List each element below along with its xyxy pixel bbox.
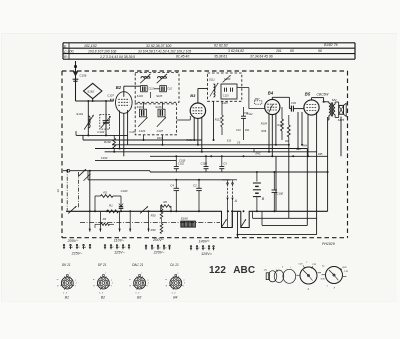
svg-text:35,38 61: 35,38 61 [214,55,227,59]
svg-text:C112: C112 [247,112,254,116]
svg-text:1: 1 [76,283,77,285]
svg-text:S162: S162 [87,89,94,93]
svg-text:DK 21: DK 21 [62,263,71,267]
svg-text:B3: B3 [137,296,141,300]
svg-text:101,102: 101,102 [84,44,97,48]
svg-text:3 62,64,82: 3 62,64,82 [228,49,244,53]
svg-text:R102: R102 [104,140,111,144]
svg-text:122: 122 [209,265,226,276]
svg-text:R6: R6 [163,200,167,204]
svg-text:C104: C104 [139,129,146,133]
svg-text:DAC 21: DAC 21 [132,263,143,267]
svg-text:C2: C2 [193,184,197,188]
svg-text:C93: C93 [291,101,296,105]
svg-text:S108: S108 [222,101,229,105]
svg-text:s: s [177,272,178,274]
svg-text:C103: C103 [97,130,104,134]
svg-text:225V~: 225V~ [71,251,84,255]
svg-text:81/82 76: 81/82 76 [324,43,338,47]
svg-text:C107: C107 [107,94,114,98]
svg-text:S103: S103 [137,105,144,109]
svg-text:B2: B2 [116,85,122,90]
svg-text:200V~: 200V~ [152,238,165,242]
svg-text:96: 96 [318,49,322,53]
svg-text:R39: R39 [151,228,156,232]
svg-text:C10: C10 [236,129,241,132]
svg-text:1,2´3 3:4,41 04 38,39,5: 1,2´3 3:4,41 04 38,39,5 [100,55,135,59]
svg-text:1: 1 [148,283,149,285]
svg-text:R97: R97 [255,97,260,101]
svg-text:R64: R64 [303,144,308,147]
svg-text:1: 1 [112,283,113,285]
svg-text:B4: B4 [268,91,274,96]
svg-text:100,: 100, [68,50,75,54]
svg-text:B5: B5 [305,91,311,96]
svg-text:C10β: C10β [277,191,284,195]
svg-text:31 52,36,37 100: 31 52,36,37 100 [146,44,171,48]
svg-text:R101: R101 [157,136,164,140]
svg-text:DL 21: DL 21 [170,263,179,267]
svg-text:E.: E. [64,44,67,48]
svg-text:C1B3: C1B3 [201,161,208,165]
svg-text:1: 1 [184,283,185,285]
svg-text:B3: B3 [190,93,196,98]
svg-text:R65: R65 [318,153,323,156]
svg-text:C3: C3 [223,161,227,165]
svg-text:12: 12 [56,189,60,193]
svg-text:s: s [69,272,70,274]
svg-text:R:: R: [64,55,68,59]
svg-text:R9C: R9C [256,152,261,156]
svg-text:R4: R4 [103,217,107,221]
svg-text:S106: S106 [155,105,162,109]
svg-text:C105: C105 [129,131,136,134]
svg-text:C106: C106 [80,73,87,77]
svg-text:S180: S180 [181,216,189,220]
svg-text:C115: C115 [223,95,229,98]
svg-text:B2: B2 [101,296,105,300]
svg-text:125V~: 125V~ [114,251,126,255]
svg-text:S104: S104 [137,94,144,98]
svg-text:s: s [141,272,142,274]
svg-text:37,34,64 45 96: 37,34,64 45 96 [250,54,273,58]
svg-text:s: s [105,272,106,274]
svg-text:C113: C113 [148,87,154,90]
svg-text:B4: B4 [173,296,177,300]
svg-text:R96: R96 [261,129,266,133]
svg-text:C10: C10 [167,87,172,90]
svg-text:140V=: 140V= [199,240,211,244]
svg-text:ABC: ABC [233,265,255,276]
svg-text:33 104,58:17,41,53 4,102 109,2: 33 104,58:17,41,53 4,102 109,2 105 [138,49,191,53]
svg-text:S111: S111 [209,78,215,82]
svg-text:C100: C100 [121,189,128,193]
svg-text:65: 65 [290,49,294,53]
svg-text:S101: S101 [76,112,83,116]
svg-text:R112: R112 [215,118,222,122]
svg-text:CBC5W: CBC5W [317,92,330,96]
svg-text:PH1929: PH1929 [322,242,335,246]
svg-text:220V~: 220V~ [153,251,166,255]
svg-text:R105: R105 [277,124,284,127]
svg-text:1: 1 [327,286,328,288]
svg-text:C4: C4 [170,184,174,188]
svg-text:R103: R103 [186,139,193,142]
svg-text:S82: S82 [332,98,337,102]
svg-text:61 62,63: 61 62,63 [214,44,228,48]
svg-text:B1: B1 [65,296,69,300]
svg-text:81,45 40: 81,45 40 [176,55,189,59]
svg-text:101: 101 [276,49,282,53]
svg-text:DF 21: DF 21 [98,263,107,267]
svg-text:R2: R2 [103,190,107,194]
svg-text:S105: S105 [156,94,163,98]
svg-text:R11: R11 [245,129,250,132]
svg-text:200V~: 200V~ [67,239,80,243]
svg-text:C100: C100 [101,156,108,160]
svg-text:R104: R104 [261,121,268,125]
svg-text:C10β: C10β [179,159,186,163]
svg-text:C107: C107 [157,129,164,133]
svg-text:R1: R1 [109,203,113,207]
svg-text:R30: R30 [151,214,156,218]
svg-text:S10: S10 [227,140,232,143]
svg-text:103,8 107:100 10β: 103,8 107:100 10β [88,50,116,54]
svg-text:110V~: 110V~ [114,239,125,243]
svg-text:125V=: 125V= [201,252,213,256]
